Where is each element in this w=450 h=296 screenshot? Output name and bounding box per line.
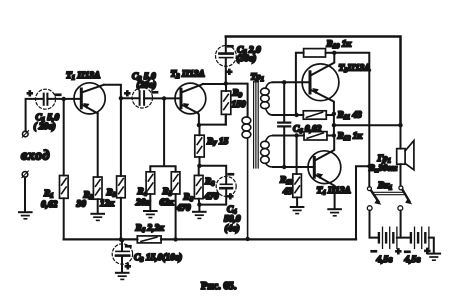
wire secondary lower to T4 base (273, 166, 314, 168)
resistor R4 (146, 172, 155, 194)
wire R2 to ground (97, 199, 99, 213)
node R12 R13 (294, 133, 298, 137)
capacitor C4 (216, 169, 236, 203)
transformer core (254, 82, 259, 169)
wire T2 collector to C5 node (203, 83, 226, 85)
node speaker rail (398, 123, 402, 127)
svg-text:(30в): (30в) (237, 54, 257, 64)
node base T1 (62, 97, 66, 101)
svg-text:50,0: 50,0 (224, 215, 241, 225)
svg-text:R10 1к: R10 1к (326, 40, 352, 51)
node R5 rail (173, 237, 177, 241)
node primary rail (245, 237, 249, 241)
wire battery1 to battery2 and switch tap (397, 211, 411, 238)
svg-text:43: 43 (282, 187, 293, 197)
svg-text:R3: R3 (106, 188, 117, 199)
node rail switch (367, 164, 371, 168)
battery GB2 (411, 227, 429, 248)
wire node to C4 top (199, 166, 226, 184)
resistor R11 (303, 111, 334, 119)
svg-text:Тр1: Тр1 (251, 73, 264, 84)
resistor R6 (137, 236, 161, 243)
wire terminal XS2 to ground (24, 177, 26, 211)
wire input terminal to C1 (26, 99, 43, 131)
svg-text:+: + (27, 89, 33, 100)
transistor T2 (175, 83, 206, 114)
svg-text:Т4 П13А: Т4 П13А (317, 186, 351, 197)
svg-text:R8: R8 (183, 193, 194, 204)
svg-text:Рис. 65.: Рис. 65. (201, 281, 237, 292)
wire node to R1 (63, 99, 65, 176)
battery GB1 (379, 227, 397, 248)
wire T1 collector to R3 (104, 85, 121, 176)
svg-text:+: + (396, 247, 402, 258)
svg-text:470: 470 (204, 192, 219, 202)
ground under C3 (116, 273, 129, 280)
transformer primary winding (242, 117, 251, 239)
wire C4 bottom to R8 bottom (199, 190, 227, 205)
svg-text:C6 0,02: C6 0,02 (293, 125, 322, 136)
svg-text:( 20в): ( 20в) (34, 122, 56, 132)
wire R10 node to switch (334, 53, 369, 187)
input terminal XS2 (22, 171, 28, 178)
wire secondary lower inner to R12 (273, 135, 304, 137)
ground under R4 (144, 211, 157, 218)
svg-text:R9: R9 (232, 89, 243, 100)
node R12 collector T4 (332, 133, 336, 137)
bottom rail right segment (161, 238, 356, 240)
svg-text:Вк1: Вк1 (377, 181, 392, 192)
resistor R2 (93, 177, 102, 199)
wire C1 to T1 base (47, 98, 80, 100)
resistor R13 (293, 136, 302, 207)
svg-text:Т1 П13А: Т1 П13А (66, 71, 100, 82)
ground at input (19, 212, 32, 219)
resistor R9 (221, 84, 230, 125)
node C3 rail (120, 238, 124, 242)
wire C5 node to transformer primary (226, 84, 248, 117)
svg-text:+: + (125, 262, 131, 273)
transformer secondary upper winding (261, 82, 273, 115)
ground at battery (428, 254, 441, 261)
wire emitter node to R9 bottom (199, 115, 226, 125)
capacitor C1 (27, 89, 61, 110)
svg-text:R8: R8 (204, 177, 215, 188)
wire secondary upper to T3 base (273, 81, 310, 83)
svg-text:R11 43: R11 43 (337, 111, 363, 122)
transistor T1 (74, 83, 105, 114)
output line to speaker rail (334, 124, 401, 126)
node base T2 (162, 96, 166, 100)
node collector T1 / C2 (119, 96, 123, 100)
resistor R1 (60, 176, 69, 199)
svg-text:C3 15,0(10в): C3 15,0(10в) (134, 253, 182, 264)
capacitor C6 (278, 82, 290, 167)
node R11 emitter T3 (332, 112, 336, 116)
wire secondary upper inner to R11 (273, 114, 304, 116)
wire R1 to rail (63, 198, 65, 239)
ground under T4 emitter (328, 209, 341, 216)
svg-text:470: 470 (176, 204, 191, 214)
resistor R10 (296, 49, 334, 115)
node R10 collector T3 (332, 51, 336, 55)
node R10 R11 (294, 113, 298, 117)
svg-text:R13: R13 (279, 176, 294, 187)
svg-text:Т2 П13А: Т2 П13А (171, 70, 205, 81)
svg-text:4,5в: 4,5в (376, 255, 394, 265)
capacitor C2 (125, 87, 158, 109)
svg-text:20к: 20к (135, 198, 150, 208)
wire rail to switch pole (356, 166, 369, 239)
node emitter T2 (197, 123, 201, 127)
wire T2 emitter down (198, 113, 199, 125)
svg-text:+: + (228, 192, 234, 203)
wire switch to battery minus (370, 211, 378, 238)
resistor R3 (117, 176, 126, 198)
wire emitter T3 to output line (333, 114, 335, 136)
svg-text:4,5в: 4,5в (404, 255, 422, 265)
svg-text:(4в): (4в) (225, 224, 240, 234)
node R8 ground (197, 202, 201, 206)
transistor T4 (308, 136, 341, 209)
wire C2 right to T2 base (144, 97, 180, 99)
ground under R13 (291, 207, 304, 214)
wire R5 to rail (175, 194, 177, 239)
capacitor C3 (112, 240, 132, 272)
node secondary C6 top (282, 80, 286, 84)
transistor T3 (302, 53, 339, 114)
wire R3 to rail (120, 198, 122, 240)
resistor R7 (195, 125, 204, 157)
node R3 rail (119, 237, 123, 241)
svg-text:(20в): (20в) (137, 81, 157, 91)
wire T1 emitter to R2 (97, 113, 99, 177)
ground under R2 (91, 214, 104, 221)
wire C2 left to collector node (121, 97, 140, 99)
node output line (332, 123, 336, 127)
ground under R8 (193, 205, 206, 219)
svg-text:R6 2,2к: R6 2,2к (135, 224, 165, 235)
wire R7 to R8 node (199, 157, 201, 166)
svg-text:вход: вход (21, 149, 50, 164)
switch Vk1 (367, 186, 412, 211)
resistor R8 (194, 166, 203, 199)
loudspeaker Gr1 (397, 125, 414, 186)
bottom rail left segment (64, 238, 138, 240)
svg-text:150: 150 (232, 100, 246, 110)
top rail wire (226, 37, 401, 126)
svg-text:–: – (227, 41, 233, 52)
wire base node to R4 R5 divider (150, 98, 175, 171)
node C5 R9 collector T2 (224, 81, 228, 85)
capacitor C5 (216, 37, 237, 84)
wire battery2 to ground (429, 238, 434, 253)
svg-text:+: + (425, 246, 431, 257)
svg-text:R7 15: R7 15 (206, 137, 229, 148)
svg-text:Т3П13А: Т3П13А (339, 64, 371, 75)
svg-text:Rн30ом: Rн30ом (368, 163, 397, 175)
svg-text:12к: 12к (100, 199, 114, 209)
node R7 R8 C4 (197, 164, 201, 168)
resistor R12 (304, 132, 334, 140)
svg-text:0,62: 0,62 (41, 200, 58, 210)
resistor R5 (171, 172, 180, 194)
svg-text:R1: R1 (43, 189, 54, 200)
svg-text:62к: 62к (160, 198, 174, 208)
wire R4 to ground (149, 194, 151, 210)
svg-text:30: 30 (76, 200, 87, 210)
node C6 bottom (282, 165, 286, 169)
svg-text:–: – (228, 169, 234, 180)
input terminal XS1 (22, 131, 28, 138)
svg-text:R12 1к: R12 1к (337, 132, 363, 143)
svg-text:–: – (125, 241, 131, 252)
transformer secondary lower winding (261, 136, 273, 168)
svg-text:+: + (227, 67, 233, 78)
